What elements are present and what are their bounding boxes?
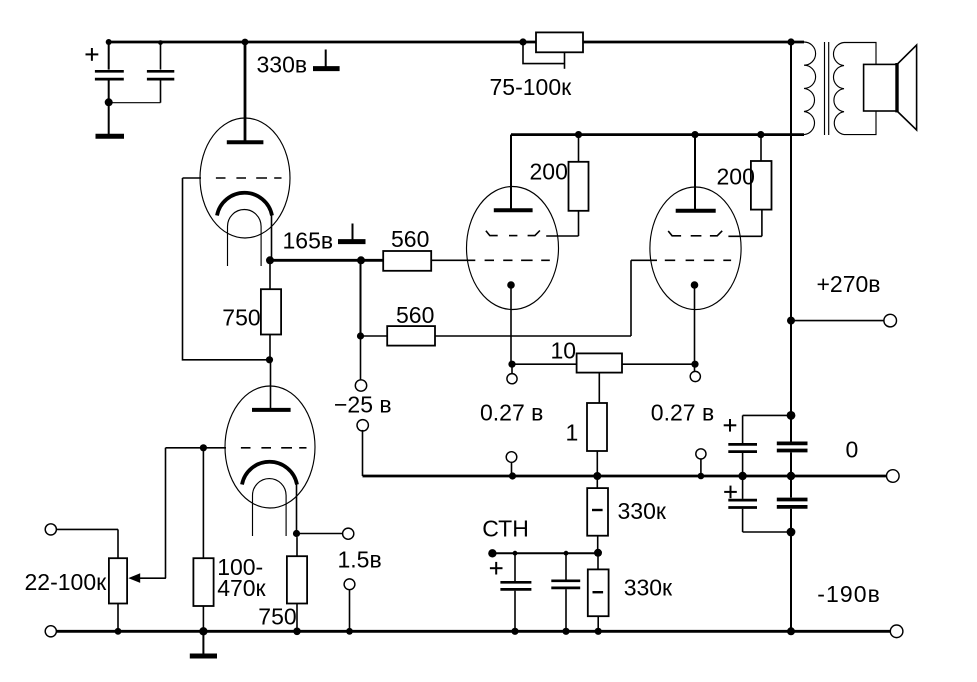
terminal −25в lower	[357, 420, 368, 476]
wire V1a anode lead	[244, 42, 247, 142]
resistor 200 (V3 screen)	[751, 135, 772, 237]
capacitor filter bottom-right (in rail)	[777, 476, 808, 631]
svg-text:165в: 165в	[283, 227, 334, 253]
tube V1b (second triode) envelope	[225, 386, 315, 508]
label + (СТН)	[490, 562, 503, 575]
terminal 0	[887, 470, 900, 483]
wire V1b anode lead	[270, 360, 272, 410]
wire +270в	[787, 317, 884, 325]
wire V2 anode lead	[510, 135, 512, 210]
svg-text:1: 1	[566, 419, 579, 445]
capacitor СТН right	[551, 551, 580, 632]
svg-text:330в: 330в	[257, 51, 308, 77]
terminal +270в	[884, 314, 897, 327]
svg-text:10: 10	[551, 338, 577, 364]
label + (top filter)	[724, 419, 737, 432]
V1b anode bar	[252, 408, 291, 412]
V3 cathode node	[691, 281, 699, 364]
tube V3 (output) envelope	[650, 187, 741, 310]
V3 anode bar	[676, 209, 716, 213]
svg-text:200: 200	[530, 159, 568, 185]
svg-text:0.27 в: 0.27 в	[651, 399, 714, 425]
V2 anode bar	[494, 208, 533, 212]
wire V1b grid down to potentiometer wiper	[165, 448, 167, 578]
capacitor filter top-left	[728, 415, 757, 476]
terminal 1.5в lower	[344, 579, 355, 631]
label 100-470к	[217, 554, 266, 601]
capacitor СТН left	[500, 551, 531, 632]
svg-text:−25 в: −25 в	[334, 392, 392, 418]
resistor 330к lower	[588, 553, 609, 631]
svg-text:560: 560	[396, 302, 434, 328]
speaker	[864, 45, 917, 130]
potentiometer 22-100к body	[109, 529, 127, 631]
svg-text:750: 750	[222, 304, 260, 330]
resistor 750 (V1b cathode)	[287, 537, 307, 631]
resistor 200 (V2 screen)	[569, 135, 589, 236]
svg-text:75-100к: 75-100к	[490, 74, 573, 100]
V1a grid (dashed)	[183, 177, 282, 179]
wire feedback from V1a grid to V1b anode	[183, 178, 274, 363]
svg-text:330к: 330к	[624, 575, 673, 601]
resistor 560 (lower, V3 grid stopper)	[361, 326, 632, 346]
V1a heater	[228, 210, 262, 267]
V2 screen grid	[486, 231, 579, 237]
V3 screen grid	[668, 231, 762, 237]
wire input	[57, 528, 119, 530]
svg-text:200: 200	[717, 164, 755, 190]
terminal 0.27в left upper	[507, 364, 517, 384]
svg-text:1.5в: 1.5в	[338, 547, 382, 573]
wire wiper link	[140, 577, 166, 579]
tube V1a (input triode) envelope	[200, 118, 290, 238]
terminal 1.5в upper	[343, 528, 354, 539]
svg-text:0.27 в: 0.27 в	[480, 400, 543, 426]
V2 control grid (dashed)	[485, 259, 550, 261]
label + (bottom filter)	[724, 486, 737, 499]
wire top B+ rail	[106, 38, 804, 45]
capacitor filter top-right (in rail)	[777, 443, 808, 476]
terminal input circle	[45, 524, 56, 535]
V1b heater	[253, 479, 287, 536]
V3 control grid (dashed)	[665, 259, 731, 261]
wire filter caps top node	[743, 411, 796, 420]
node 165в (V1a cathode)	[266, 256, 365, 264]
terminal 0.27в right upper	[690, 364, 700, 381]
V1b cathode arc	[242, 462, 297, 485]
resistor 100-470к (grid leak)	[193, 448, 213, 632]
resistor 10 (cathode balance)	[508, 353, 698, 403]
resistor 75-100к (variable)	[519, 32, 583, 68]
rail anode supply (tubes V2 V3)	[511, 131, 804, 138]
transformer secondary winding	[833, 43, 844, 135]
chassis symbol (330в)	[313, 50, 340, 69]
resistor 330к upper	[587, 476, 608, 553]
terminal −190в	[890, 625, 903, 638]
node V1b cathode	[293, 530, 343, 537]
svg-text:470к: 470к	[217, 575, 266, 601]
V1b grid (dashed)	[166, 444, 307, 451]
rail 0 (ground bus)	[363, 472, 887, 480]
transformer core	[825, 42, 829, 135]
wire secondary to speaker	[844, 43, 876, 135]
terminal 0.27в left lower	[506, 452, 517, 480]
capacitor C2	[147, 42, 174, 103]
resistor 1 (balance to ground)	[587, 403, 607, 476]
V1a cathode arc	[217, 193, 272, 216]
ground (100-470к)	[190, 631, 217, 656]
chassis symbol (165в)	[338, 224, 366, 242]
svg-text:+270в: +270в	[817, 271, 881, 297]
terminal −25в upper	[355, 380, 366, 391]
V2 cathode node	[507, 281, 515, 364]
svg-text:0: 0	[846, 436, 859, 462]
wire filter caps bottom node	[743, 528, 796, 537]
ground (C1)	[96, 134, 125, 139]
svg-text:-190в: -190в	[817, 581, 881, 607]
capacitor C1 (electrolytic, + label)	[95, 42, 124, 134]
wire C2 bottom to C1 node	[109, 102, 161, 104]
rail −190в (bottom bus)	[57, 627, 891, 635]
node СТН	[488, 549, 602, 558]
transformer primary winding	[804, 42, 816, 135]
terminal bottom-left	[45, 626, 56, 637]
V1a anode bar	[227, 140, 264, 144]
svg-text:750: 750	[258, 603, 296, 629]
svg-text:560: 560	[391, 226, 429, 252]
wire V1b cathode lead	[296, 484, 298, 534]
wire to V3 grid (step up)	[631, 260, 657, 336]
wire V1a cathode lead	[271, 215, 273, 260]
resistor 560 (upper, V2 grid stopper)	[361, 251, 475, 271]
capacitor filter bottom-left	[728, 476, 757, 532]
resistor 750 (V1a cathode)	[261, 260, 281, 360]
svg-text:22-100к: 22-100к	[25, 569, 108, 595]
potentiometer 22-100к wiper arrow	[128, 573, 140, 583]
tube V2 (output) envelope	[467, 187, 559, 310]
svg-text:330к: 330к	[618, 498, 667, 524]
wire right vertical rail (+270в feed)	[790, 42, 792, 443]
wire V3 anode lead	[694, 135, 696, 211]
terminal 0.27в right lower	[696, 449, 706, 480]
wire −25в branch	[357, 260, 364, 380]
svg-text:СТН: СТН	[482, 515, 529, 541]
label + (C1)	[86, 48, 99, 61]
